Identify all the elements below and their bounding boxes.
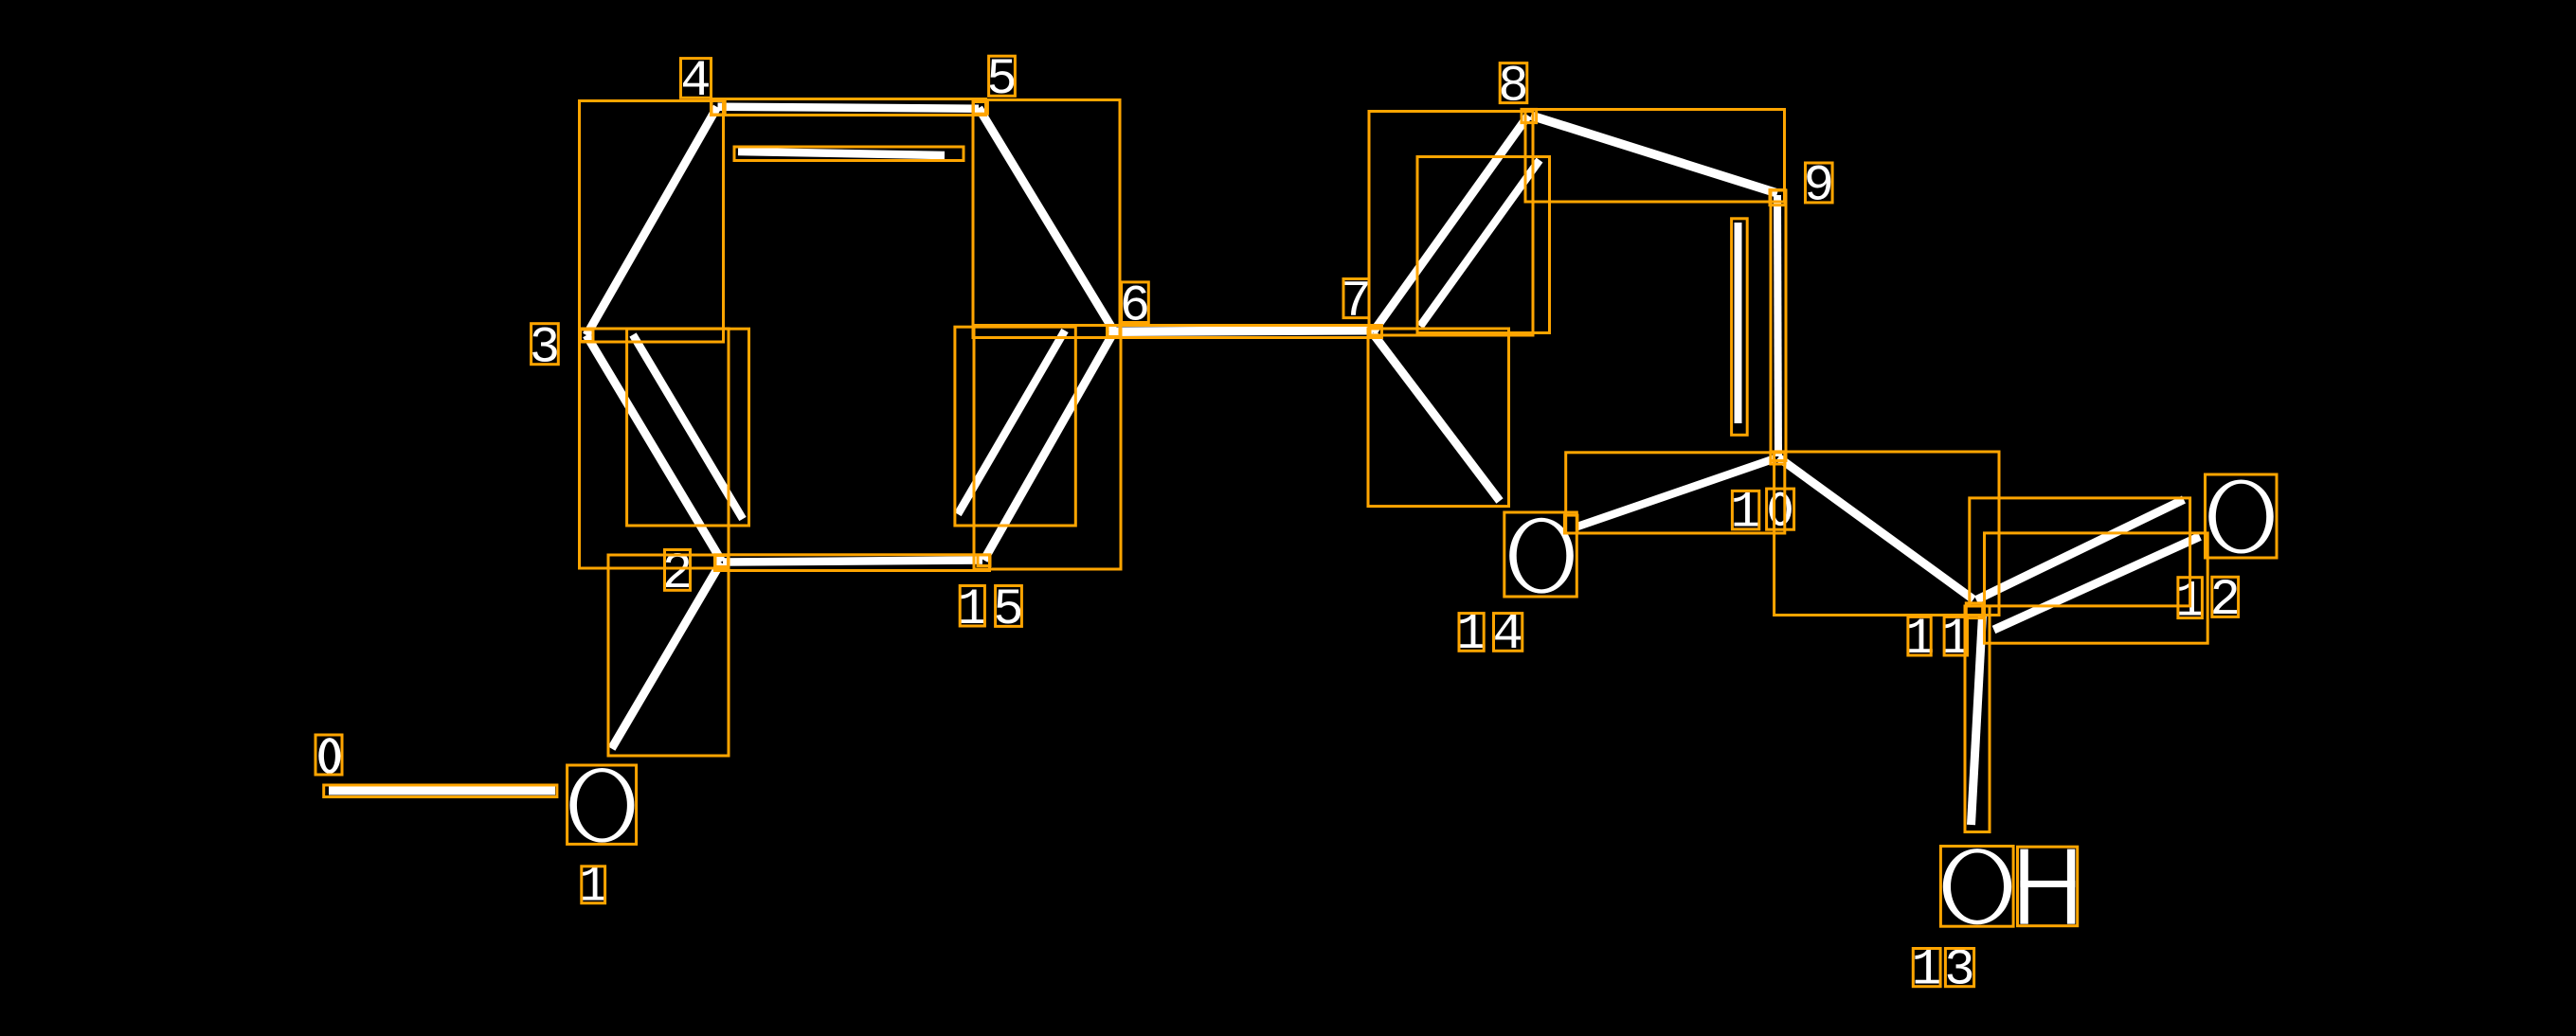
bbox bond O1-C2 bbox=[608, 555, 729, 756]
bond C5-C6 (ring) bbox=[979, 108, 1114, 331]
bond C3-C4 (ring) bbox=[586, 107, 717, 335]
bond O1-C2 bbox=[612, 563, 722, 749]
bbox label index 4 (atom 4) bbox=[681, 59, 712, 98]
bbox label index 9 (atom 9) bbox=[1806, 163, 1833, 203]
bbox atom O1 bbox=[567, 765, 637, 844]
bond C11=O12 line b bbox=[1994, 537, 2201, 631]
atom O12 glyph bbox=[2208, 479, 2273, 553]
svg-text:2: 2 bbox=[2209, 572, 2240, 630]
bbox bond C6-C7 bbox=[1108, 326, 1382, 338]
atom O13 glyph (of OH) bbox=[1943, 848, 2011, 924]
bond C0-O1 (methoxy) bbox=[329, 787, 555, 795]
bbox label index 7 (atom 7) bbox=[1343, 279, 1369, 318]
bbox atom O13 bbox=[1940, 847, 2013, 927]
svg-text:1: 1 bbox=[1456, 606, 1486, 664]
bond C2-C3 (ring) bbox=[586, 335, 722, 562]
bbox label index 10 digit 1 bbox=[1732, 491, 1758, 529]
bbox label index 3 (atom 3) bbox=[531, 324, 559, 365]
bbox atom O12 bbox=[2206, 474, 2278, 558]
bbox atom O14 bbox=[1504, 512, 1577, 597]
bbox label index 8 (atom 8) bbox=[1500, 63, 1527, 103]
bond C6-C7 (biaryl link) bbox=[1114, 330, 1373, 332]
bbox bond C7-O14 bbox=[1368, 329, 1509, 507]
bbox label index 14 digit 1 bbox=[1459, 614, 1484, 652]
marker atom O14 attach bbox=[1564, 515, 1577, 533]
bbox C11=O12 line b bbox=[1985, 533, 2208, 643]
bbox bond C3-C4 bbox=[580, 101, 724, 343]
bond C9-C10 (ring B) bbox=[1777, 195, 1778, 456]
bbox label index 11 digit 1b bbox=[1944, 616, 1967, 655]
bbox C9-C10 inner bbox=[1732, 219, 1748, 435]
bond O14-C10 (ring B) bbox=[1577, 458, 1775, 527]
digit 0 of index 10 bbox=[1769, 492, 1792, 527]
svg-text:3: 3 bbox=[1944, 942, 1974, 1000]
bond C11=O12 line a bbox=[1976, 500, 2184, 600]
bond C9-C10 inner line bbox=[1735, 223, 1742, 423]
marker atom C15 bbox=[978, 555, 990, 566]
svg-text:7: 7 bbox=[1341, 273, 1371, 330]
bbox bond C6-C15 bbox=[974, 326, 1121, 570]
bond C7-C8 inner line bbox=[1420, 160, 1540, 327]
marker atom C4 bbox=[712, 100, 725, 115]
bbox label index 5 (atom 5) bbox=[989, 56, 1016, 96]
svg-text:9: 9 bbox=[1804, 158, 1834, 216]
bbox bond C9-C10 bbox=[1771, 190, 1786, 461]
bbox index 10 digit 0 bbox=[1767, 489, 1794, 529]
bbox label index 15 digit 5 bbox=[996, 586, 1022, 627]
bbox C4-C5 inner bbox=[734, 147, 964, 161]
bond C6-C15 (ring) bbox=[984, 331, 1115, 561]
bbox bond C7-C8 bbox=[1369, 112, 1533, 336]
bond C4-C5 inner line bbox=[738, 152, 945, 155]
bbox atom H13 bbox=[2018, 847, 2078, 926]
bbox bond C10-C11 bbox=[1774, 452, 1999, 616]
atom O1 glyph bbox=[569, 768, 634, 843]
bond C4-C5 (ring) bbox=[718, 107, 980, 109]
bbox bond C4-C5 bbox=[712, 99, 986, 116]
bbox label index 12 digit 2 bbox=[2212, 577, 2239, 616]
marker atom C10 bbox=[1771, 452, 1785, 464]
bbox label index 13 digit 1 bbox=[1913, 949, 1940, 987]
bbox bond C11-O13 bbox=[1965, 606, 1990, 832]
bbox label index 15 digit 1 bbox=[960, 586, 984, 627]
bbox label index 6 (atom 6) bbox=[1122, 282, 1149, 323]
bbox label index 1 (atom 1) bbox=[582, 866, 605, 903]
bond C2-C3 inner line bbox=[633, 335, 743, 520]
bond C15-C2 (ring) bbox=[723, 561, 982, 563]
svg-text:3: 3 bbox=[530, 320, 560, 378]
svg-text:1: 1 bbox=[957, 581, 987, 639]
marker atom C6 bbox=[1108, 326, 1120, 337]
digit 0 of index 0 bbox=[318, 738, 340, 774]
bbox label index 11 digit 1 bbox=[1908, 616, 1931, 655]
bond C7-C8 (ring B) bbox=[1373, 116, 1528, 332]
bbox bond O14-C10 bbox=[1566, 453, 1785, 533]
marker atom C3 bbox=[581, 330, 594, 342]
bbox C11=O12 line a bbox=[1970, 498, 2190, 606]
atom H13 glyph (of OH) bbox=[2020, 849, 2075, 924]
bbox C2-C3 inner bbox=[627, 329, 749, 526]
marker atom C5 bbox=[973, 102, 987, 115]
bbox bond C5-C6 bbox=[973, 100, 1120, 338]
bbox index 0 (atom 0) bbox=[315, 735, 342, 775]
bbox bond C0-O1 bbox=[324, 785, 557, 797]
marker atom C8 bbox=[1522, 109, 1537, 122]
bond C11-O13 (to OH) bbox=[1972, 615, 1983, 825]
bbox bond C2-C3 bbox=[580, 329, 730, 568]
bond C8-C9 (ring B) bbox=[1531, 116, 1777, 193]
svg-text:4: 4 bbox=[1492, 606, 1522, 664]
marker atom C2 bbox=[715, 556, 729, 567]
bbox label index 14 digit 4 bbox=[1494, 614, 1522, 652]
bbox label index 13 digit 3 bbox=[1945, 949, 1973, 987]
bbox label index 12 digit 1 bbox=[2178, 578, 2203, 618]
svg-text:8: 8 bbox=[1498, 58, 1528, 116]
marker atom C9 bbox=[1770, 190, 1785, 205]
bbox C6-C15 inner bbox=[955, 327, 1075, 526]
bbox bond C15-C2 bbox=[715, 555, 990, 571]
marker atom C11 bbox=[1966, 603, 1982, 618]
bbox bond C8-C9 bbox=[1525, 110, 1785, 203]
atom O14 glyph bbox=[1509, 518, 1574, 594]
bbox C7-C8 inner bbox=[1417, 157, 1550, 333]
marker atom C7 bbox=[1370, 326, 1382, 338]
bond C10-C11 bbox=[1778, 457, 1973, 599]
bond C7-O14 (ring B) bbox=[1373, 333, 1500, 501]
svg-text:6: 6 bbox=[1120, 277, 1150, 335]
svg-text:1: 1 bbox=[1911, 942, 1941, 1000]
bond C6-C15 inner line bbox=[958, 330, 1065, 514]
svg-text:5: 5 bbox=[993, 581, 1023, 639]
bbox label index 2 (atom 2) bbox=[665, 550, 691, 591]
